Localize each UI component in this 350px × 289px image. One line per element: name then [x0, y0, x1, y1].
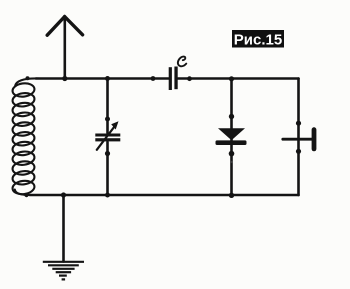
svg-text:Рис.15: Рис.15 — [234, 31, 282, 48]
